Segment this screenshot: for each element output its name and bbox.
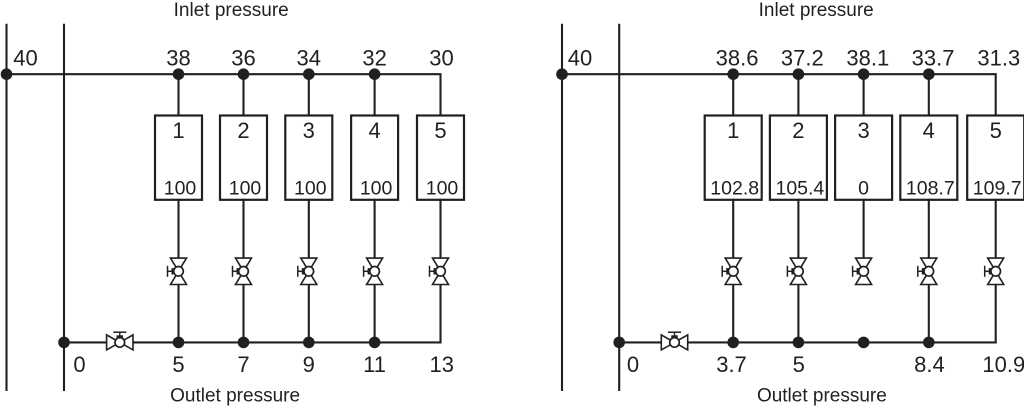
svg-text:38.6: 38.6 bbox=[716, 45, 759, 70]
wire: left branch 3 upper drop bbox=[308, 74, 310, 116]
node: left outlet junction 4 bbox=[369, 337, 381, 349]
svg-text:13: 13 bbox=[430, 352, 454, 377]
node: left inlet junction 1 (38) bbox=[173, 68, 185, 80]
node: left inlet junction 4 (32) bbox=[369, 68, 381, 80]
component: left flow element 5 box bbox=[417, 116, 464, 200]
wire: left inlet header bbox=[7, 74, 441, 116]
svg-text:38: 38 bbox=[166, 45, 190, 70]
component: right flow element 2 box bbox=[770, 116, 827, 200]
wire: left branch 2 upper drop bbox=[242, 74, 244, 116]
node: right inlet junction 4 (33.7) bbox=[923, 68, 935, 80]
wire: right inlet header bbox=[562, 74, 996, 116]
wire: left branch 1 lower drop bbox=[177, 285, 179, 343]
svg-text:5: 5 bbox=[172, 352, 184, 377]
wire: right branch 4 mid drop bbox=[928, 199, 930, 258]
svg-text:3.7: 3.7 bbox=[716, 352, 747, 377]
svg-text:100: 100 bbox=[294, 178, 327, 200]
svg-text:40: 40 bbox=[568, 45, 592, 70]
node: right inlet junction at supply riser (40) bbox=[556, 68, 568, 80]
wire: left return riser (second rail) bbox=[63, 24, 65, 391]
svg-text:Inlet pressure: Inlet pressure bbox=[174, 0, 289, 21]
node: right inlet junction 3 (38.1) bbox=[858, 68, 870, 80]
component: left flow element 2 box bbox=[220, 116, 267, 200]
wire: left branch 1 upper drop bbox=[177, 74, 179, 116]
svg-text:5: 5 bbox=[793, 352, 805, 377]
node: right outlet junction 4 bbox=[923, 337, 935, 349]
svg-text:5: 5 bbox=[990, 118, 1002, 143]
valve: left branch valve 2 bbox=[233, 258, 252, 284]
svg-text:10.9: 10.9 bbox=[982, 352, 1024, 377]
valve: left branch valve 4 bbox=[364, 258, 383, 284]
wire: left branch 2 mid drop bbox=[242, 199, 244, 258]
wire: left branch 5 mid drop bbox=[439, 199, 441, 258]
wire: left branch 4 mid drop bbox=[374, 199, 376, 258]
valve: left branch valve 3 bbox=[298, 258, 317, 284]
svg-text:1: 1 bbox=[172, 118, 184, 143]
valve: left branch valve 1 bbox=[168, 258, 187, 284]
valve: right branch valve 2 bbox=[787, 258, 806, 284]
svg-text:11: 11 bbox=[363, 352, 386, 377]
wire: right branch 1 lower drop bbox=[732, 285, 734, 343]
valve: right main outlet valve bbox=[661, 332, 687, 350]
node: left inlet junction 3 (34) bbox=[303, 68, 315, 80]
svg-text:1: 1 bbox=[727, 118, 739, 143]
svg-text:2: 2 bbox=[237, 118, 249, 143]
node: left inlet junction 2 (36) bbox=[238, 68, 250, 80]
wire: right branch 2 mid drop bbox=[797, 199, 799, 258]
svg-text:4: 4 bbox=[923, 118, 935, 143]
svg-text:8.4: 8.4 bbox=[914, 352, 945, 377]
valve: right branch valve 1 bbox=[722, 258, 741, 284]
node: left outlet junction at return riser (0) bbox=[58, 337, 70, 349]
wire: right branch 4 lower drop bbox=[928, 285, 930, 343]
svg-text:3: 3 bbox=[303, 118, 315, 143]
component: right flow element 1 box bbox=[705, 116, 762, 200]
wire: right supply riser (left rail) bbox=[561, 24, 563, 391]
component: left flow element 3 box bbox=[285, 116, 332, 200]
svg-text:32: 32 bbox=[362, 45, 386, 70]
svg-text:7: 7 bbox=[237, 352, 249, 377]
wire: left branch 3 mid drop bbox=[308, 199, 310, 258]
wire: right branch 3 upper drop bbox=[863, 74, 865, 116]
component: right flow element 4 box bbox=[900, 116, 957, 200]
svg-text:0: 0 bbox=[858, 178, 869, 200]
svg-text:Outlet pressure: Outlet pressure bbox=[757, 386, 887, 407]
node: left inlet junction at supply riser (40) bbox=[1, 68, 13, 80]
node: left outlet junction 2 bbox=[238, 337, 250, 349]
valve: right branch valve 4 bbox=[918, 258, 937, 284]
svg-text:Outlet pressure: Outlet pressure bbox=[170, 386, 300, 407]
wire: right branch 2 upper drop bbox=[797, 74, 799, 116]
svg-text:109.7: 109.7 bbox=[973, 178, 1022, 200]
component: right flow element 5 box bbox=[967, 116, 1024, 200]
wire: right branch 1 mid drop bbox=[732, 199, 734, 258]
wire: left branch 4 lower drop bbox=[374, 285, 376, 343]
svg-text:0: 0 bbox=[73, 352, 85, 377]
svg-text:102.8: 102.8 bbox=[710, 178, 759, 200]
component: left flow element 4 box bbox=[351, 116, 398, 200]
node: right inlet junction 2 (37.2) bbox=[793, 68, 805, 80]
node: left outlet junction 3 bbox=[303, 337, 315, 349]
node: right outlet junction 2 bbox=[793, 337, 805, 349]
component: right flow element 3 box bbox=[835, 116, 892, 200]
wire: right branch 1 upper drop bbox=[732, 74, 734, 116]
svg-text:100: 100 bbox=[164, 178, 197, 200]
svg-text:105.4: 105.4 bbox=[775, 178, 824, 200]
svg-text:2: 2 bbox=[792, 118, 804, 143]
svg-text:34: 34 bbox=[297, 45, 321, 70]
node: right inlet junction 1 (38.6) bbox=[727, 68, 739, 80]
svg-text:0: 0 bbox=[627, 352, 639, 377]
svg-text:37.2: 37.2 bbox=[781, 45, 824, 70]
wire: right outlet header bbox=[619, 285, 996, 343]
svg-text:108.7: 108.7 bbox=[906, 178, 955, 200]
valve: right branch valve 3 bbox=[853, 258, 872, 284]
valve: left branch valve 5 bbox=[430, 258, 449, 284]
wire: right branch 3 mid drop bbox=[863, 199, 865, 258]
svg-text:100: 100 bbox=[229, 178, 262, 200]
svg-text:9: 9 bbox=[303, 352, 315, 377]
wire: left supply riser (left rail) bbox=[5, 24, 7, 391]
svg-text:31.3: 31.3 bbox=[977, 45, 1020, 70]
svg-text:4: 4 bbox=[368, 118, 380, 143]
svg-text:100: 100 bbox=[360, 178, 393, 200]
wire: left branch 3 lower drop bbox=[308, 285, 310, 343]
node: right outlet junction at return riser (0) bbox=[613, 337, 625, 349]
wire: left outlet header bbox=[64, 285, 441, 343]
wire: right branch 2 lower drop bbox=[797, 285, 799, 343]
node: right outlet junction 3 bbox=[858, 337, 870, 349]
node: right outlet junction 1 bbox=[727, 337, 739, 349]
wire: right branch 5 mid drop bbox=[995, 199, 997, 258]
svg-text:5: 5 bbox=[434, 118, 446, 143]
svg-text:38.1: 38.1 bbox=[846, 45, 889, 70]
svg-text:36: 36 bbox=[231, 45, 255, 70]
valve: right branch valve 5 bbox=[985, 258, 1004, 284]
wire: right branch 4 upper drop bbox=[928, 74, 930, 116]
svg-text:40: 40 bbox=[13, 45, 37, 70]
wire: left branch 4 upper drop bbox=[374, 74, 376, 116]
svg-text:100: 100 bbox=[426, 178, 459, 200]
svg-text:30: 30 bbox=[429, 45, 453, 70]
wire: left branch 2 lower drop bbox=[242, 285, 244, 343]
svg-text:33.7: 33.7 bbox=[912, 45, 955, 70]
svg-text:Inlet pressure: Inlet pressure bbox=[759, 0, 874, 21]
wire: left branch 1 mid drop bbox=[177, 199, 179, 258]
wire: right return riser (second rail) bbox=[618, 24, 620, 391]
node: left outlet junction 1 bbox=[173, 337, 185, 349]
component: left flow element 1 box bbox=[155, 116, 202, 200]
svg-text:3: 3 bbox=[857, 118, 869, 143]
valve: left main outlet valve bbox=[107, 332, 133, 350]
